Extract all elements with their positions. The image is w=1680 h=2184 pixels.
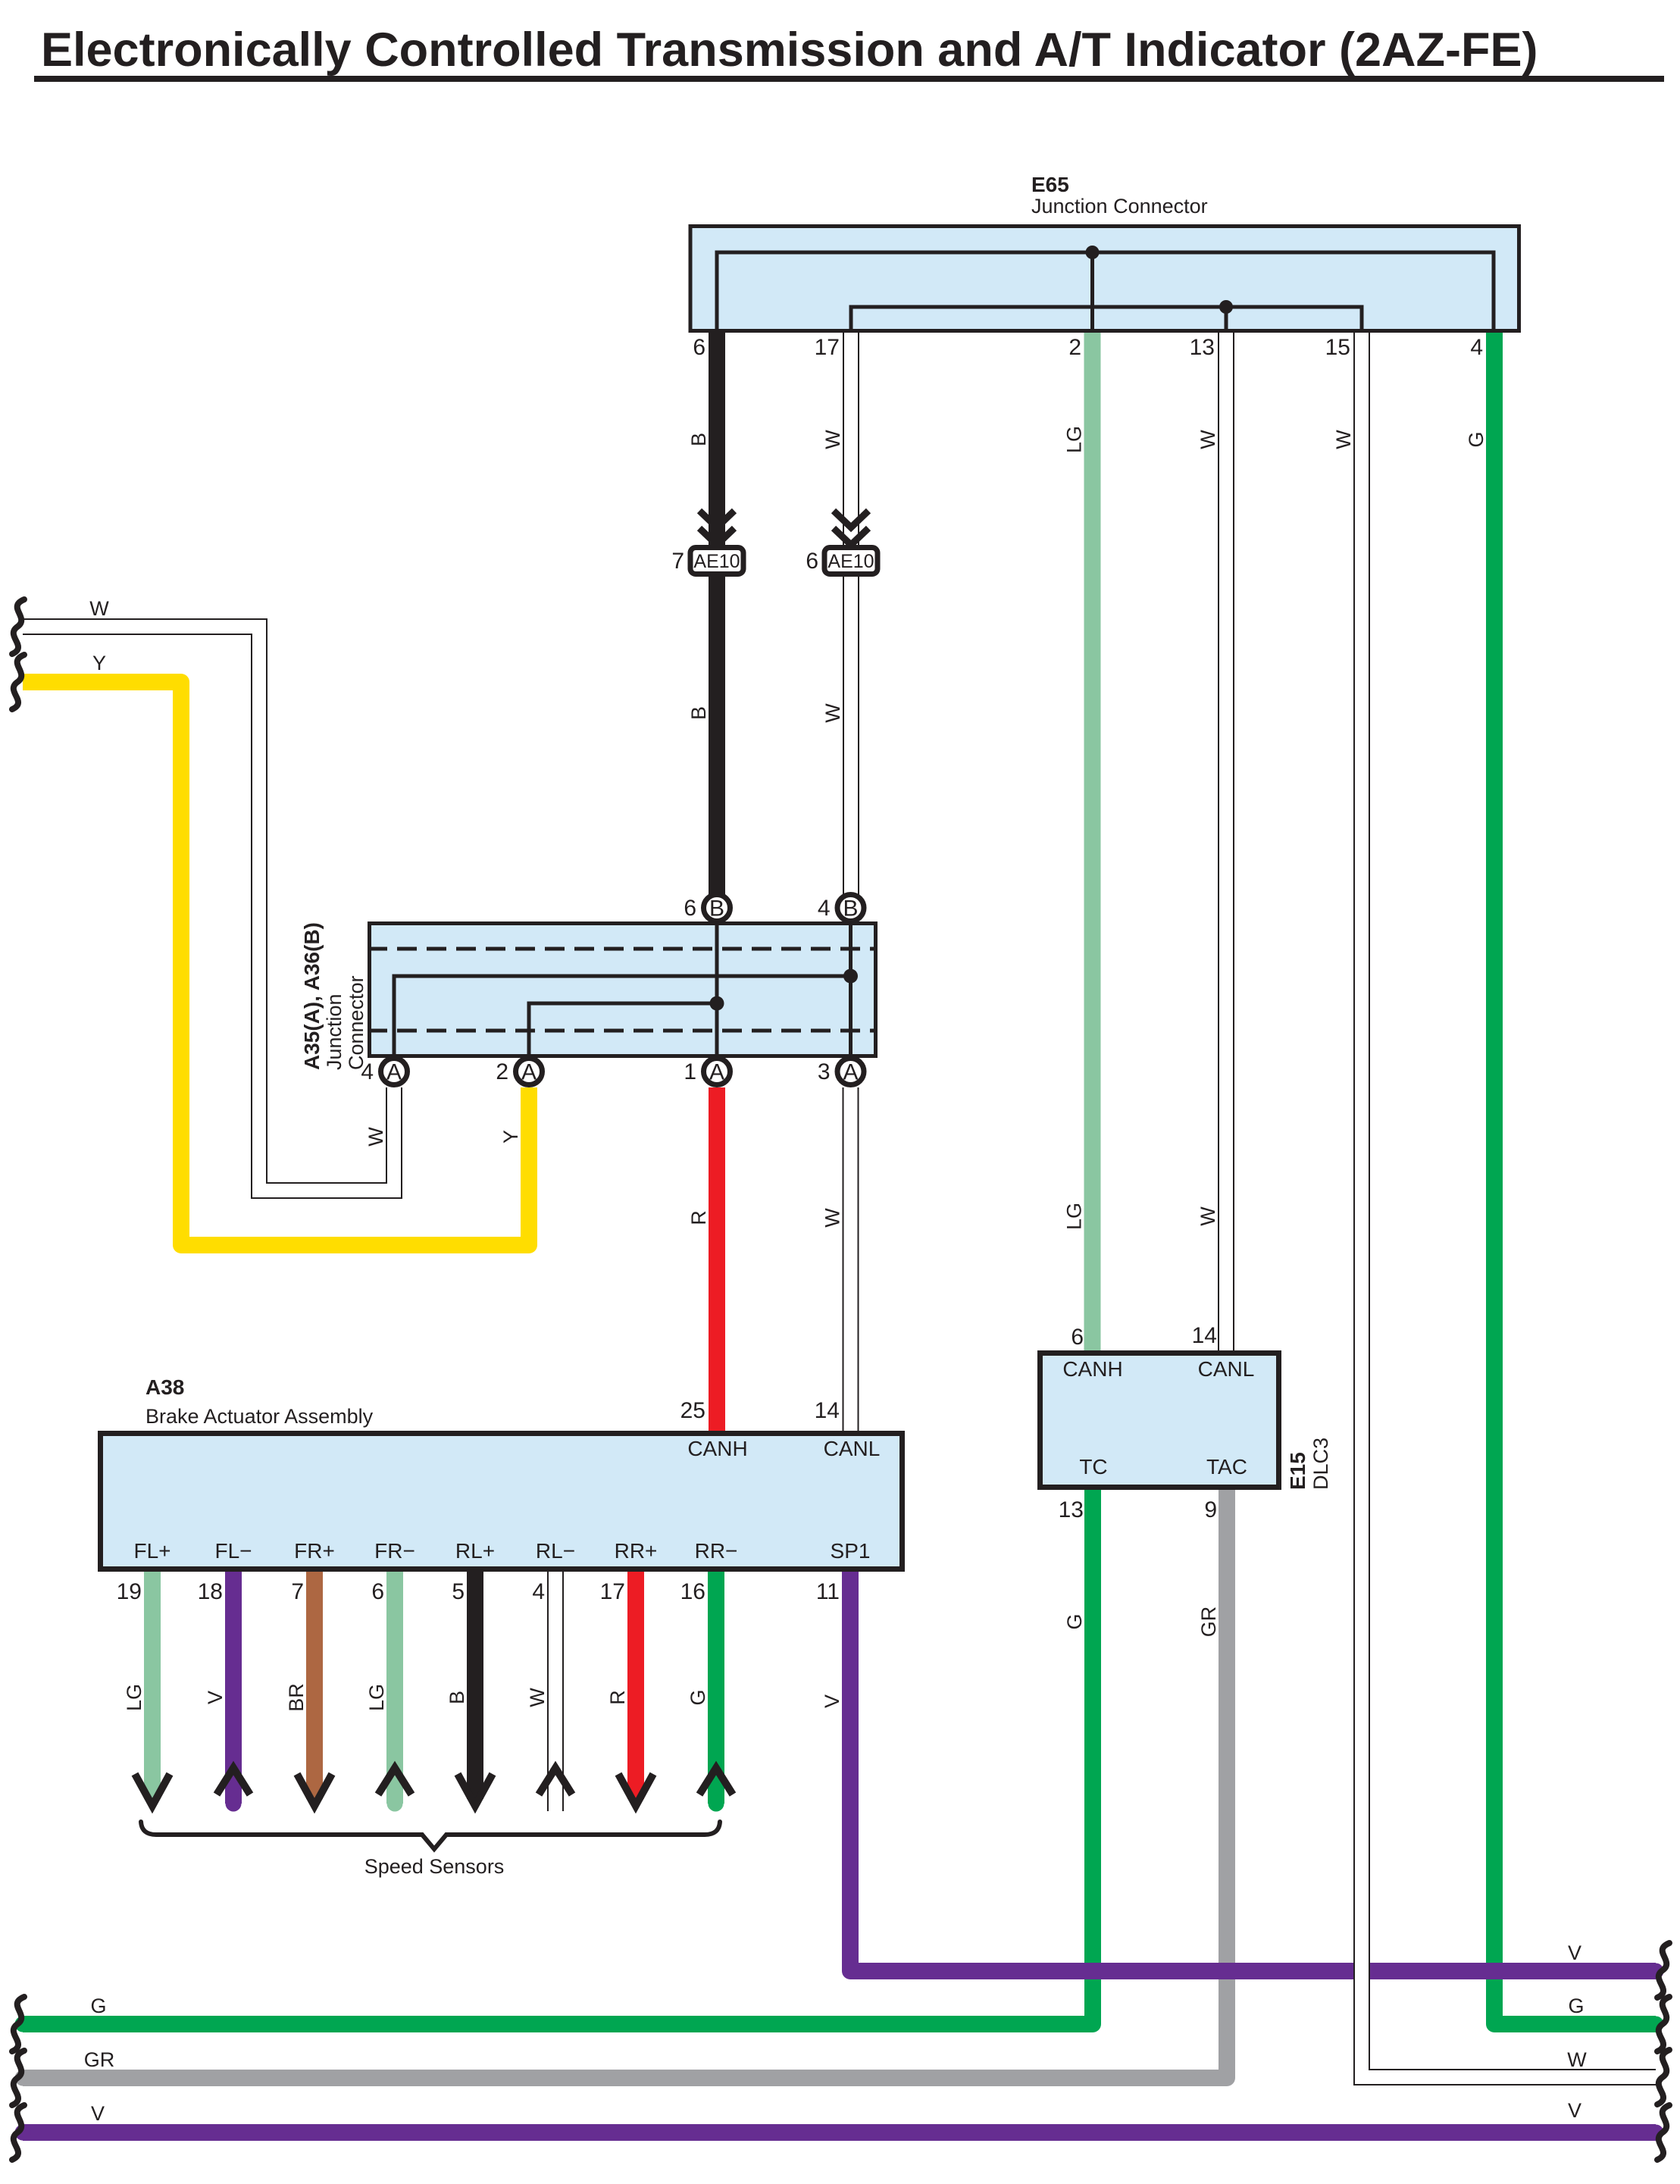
svg-text:W: W [821, 1208, 844, 1228]
svg-text:FR+: FR+ [294, 1539, 335, 1563]
A35 pin 2A [516, 1059, 543, 1085]
wire W from left edge to A35 4A [23, 627, 394, 1191]
svg-text:1: 1 [684, 1059, 696, 1084]
svg-text:6: 6 [371, 1579, 384, 1604]
svg-text:W: W [1197, 430, 1219, 449]
arrow up RR- [699, 1768, 733, 1794]
svg-text:14: 14 [815, 1398, 840, 1423]
junction connector A35(A),A36(B) [370, 924, 876, 1056]
svg-text:CANH: CANH [1062, 1357, 1122, 1381]
svg-text:G: G [687, 1689, 709, 1705]
break symbol G left [12, 1997, 24, 2051]
svg-text:G: G [1063, 1613, 1086, 1629]
svg-text:FL−: FL− [214, 1539, 252, 1563]
break symbol V right [1657, 1943, 1669, 1998]
svg-text:G: G [90, 1995, 106, 2017]
svg-text:AE10: AE10 [827, 551, 874, 572]
svg-text:B: B [687, 706, 710, 720]
arrow down FL+ [135, 1774, 170, 1806]
svg-text:4: 4 [532, 1579, 545, 1604]
A35 internal wire 4A to 4B vertical [394, 976, 851, 1069]
svg-text:V: V [821, 1694, 843, 1708]
svg-text:BR: BR [285, 1683, 308, 1712]
svg-text:W: W [89, 597, 109, 620]
arrow up FL- [217, 1768, 250, 1794]
svg-text:14: 14 [1192, 1323, 1217, 1348]
svg-text:13: 13 [1059, 1497, 1084, 1522]
svg-text:B: B [709, 896, 724, 921]
svg-text:4: 4 [1470, 335, 1483, 360]
svg-text:16: 16 [680, 1579, 705, 1604]
svg-text:2: 2 [1068, 335, 1081, 360]
break symbol G right [1657, 1997, 1669, 2051]
svg-text:LG: LG [123, 1684, 145, 1711]
svg-text:6: 6 [806, 549, 818, 574]
svg-text:Y: Y [499, 1130, 522, 1144]
connector AE10 pin7 (B wire) [699, 511, 734, 527]
svg-text:W: W [364, 1127, 387, 1147]
wire LG A38 FL+ [144, 1572, 161, 1799]
svg-text:6: 6 [1071, 1325, 1084, 1350]
svg-text:RL+: RL+ [455, 1539, 495, 1563]
A35 pin 1A [704, 1059, 731, 1085]
wire B from E65-6 to AE10 [709, 333, 725, 545]
svg-text:G: G [1568, 1995, 1584, 2017]
component E15 DLC3 [1040, 1353, 1279, 1488]
svg-text:6: 6 [684, 896, 696, 921]
svg-text:Junction Connector: Junction Connector [1031, 195, 1208, 217]
wire BR A38 FR+ [306, 1572, 323, 1799]
svg-text:LG: LG [365, 1684, 388, 1711]
svg-text:15: 15 [1325, 335, 1350, 360]
svg-text:AE10: AE10 [693, 551, 740, 572]
wire B from AE10 to A35 6B [709, 577, 725, 895]
svg-text:FL+: FL+ [133, 1539, 171, 1563]
svg-text:CANL: CANL [1198, 1357, 1255, 1381]
svg-text:11: 11 [816, 1579, 840, 1604]
svg-text:V: V [1568, 2099, 1581, 2122]
svg-text:E15: E15 [1286, 1452, 1309, 1490]
svg-text:GR: GR [84, 2048, 115, 2071]
arrow down RL+ [458, 1774, 493, 1806]
wire V A38 FL- [225, 1572, 242, 1804]
wire V bottom bus [23, 2124, 1656, 2141]
svg-text:Speed Sensors: Speed Sensors [364, 1855, 505, 1878]
A35 internal wire 6B-1A [715, 913, 719, 1069]
E65 bus junction dot pin13 [1219, 300, 1233, 314]
wire B A38 RL+ [467, 1572, 483, 1799]
svg-text:17: 17 [815, 335, 840, 360]
wire GR from E15 TAC to left edge GR bus [23, 1490, 1227, 2078]
wire W from E65-13 to E15 CANL [1218, 333, 1234, 1350]
break symbol W left [12, 599, 24, 654]
svg-text:W: W [1567, 2048, 1587, 2071]
svg-text:RR−: RR− [695, 1539, 738, 1563]
wire Y from left edge to A35 2A [23, 682, 529, 1245]
svg-text:DLC3: DLC3 [1309, 1438, 1332, 1490]
wire R from A35 1A to A38 CANH(25) [709, 1087, 725, 1431]
svg-text:TC: TC [1079, 1455, 1107, 1478]
wire W from AE10 to A35 4B [843, 577, 859, 895]
break symbol Y left [12, 655, 24, 709]
break symbol W right [1657, 2050, 1669, 2104]
A35 pin 4A [381, 1059, 408, 1085]
svg-text:B: B [687, 433, 710, 446]
svg-text:3: 3 [818, 1059, 831, 1084]
component A38 Brake Actuator Assembly [101, 1434, 903, 1569]
svg-text:5: 5 [452, 1579, 465, 1604]
break symbol GR left [12, 2051, 24, 2105]
arrow down FR+ [297, 1774, 332, 1806]
svg-text:4: 4 [361, 1059, 374, 1084]
svg-text:R: R [687, 1210, 710, 1225]
wire W from A35 3A to A38 CANL(14) [843, 1087, 859, 1431]
svg-text:B: B [446, 1691, 468, 1704]
wire G A38 RR- [708, 1572, 724, 1804]
svg-text:2: 2 [496, 1059, 508, 1084]
svg-text:6: 6 [693, 335, 705, 360]
arrow up FR- [378, 1768, 411, 1794]
wire G from E65-4 to right edge G bus [1494, 333, 1656, 2024]
svg-text:E65: E65 [1031, 173, 1069, 196]
svg-text:4: 4 [818, 896, 831, 921]
E65 internal bus 6-2-4 [717, 252, 1494, 333]
svg-text:B: B [843, 896, 858, 921]
svg-text:V: V [91, 2102, 105, 2125]
svg-text:CANH: CANH [687, 1437, 747, 1460]
svg-text:A35(A), A36(B): A35(A), A36(B) [300, 922, 324, 1070]
svg-text:Electronically Controlled Tran: Electronically Controlled Transmission a… [41, 23, 1538, 77]
svg-text:Connector: Connector [345, 975, 368, 1070]
svg-text:TAC: TAC [1206, 1455, 1247, 1478]
svg-text:CANL: CANL [824, 1437, 881, 1460]
svg-text:25: 25 [680, 1398, 705, 1423]
arrow up RL- [539, 1768, 572, 1794]
A35 internal wire 2A to 6B vertical [529, 1003, 717, 1069]
svg-text:GR: GR [1197, 1607, 1220, 1638]
svg-text:A38: A38 [145, 1375, 184, 1399]
E65 internal bus 17-13-15 [851, 307, 1362, 333]
E65 bus junction dot pin2 [1086, 246, 1100, 259]
junction connector E65 [690, 227, 1519, 331]
svg-text:Y: Y [92, 652, 106, 674]
A35 pin 6B [704, 895, 731, 921]
wire W A38 RL- [547, 1572, 564, 1811]
svg-text:19: 19 [117, 1579, 142, 1604]
svg-text:W: W [821, 430, 844, 449]
wire R A38 RR+ [627, 1572, 644, 1799]
svg-text:G: G [1465, 431, 1488, 447]
svg-text:A: A [709, 1060, 724, 1085]
svg-text:RL−: RL− [536, 1539, 575, 1563]
arrow down RR+ [618, 1774, 653, 1806]
svg-text:W: W [526, 1688, 549, 1707]
A35 internal wire 4B-3A [849, 913, 853, 1069]
wire W from E65-15 to right edge W bus [1362, 333, 1656, 2077]
svg-text:SP1: SP1 [831, 1539, 871, 1563]
connector AE10 pin6 (W wire) [834, 511, 868, 527]
svg-text:A: A [843, 1060, 858, 1085]
wire G from E15 TC to left edge G bus [23, 1490, 1093, 2024]
svg-text:V: V [1568, 1942, 1581, 1964]
svg-text:W: W [821, 703, 844, 723]
svg-text:Junction: Junction [323, 993, 346, 1070]
svg-text:LG: LG [1063, 426, 1086, 453]
A35 pin 3A [837, 1059, 864, 1085]
svg-text:V: V [204, 1691, 227, 1704]
svg-text:RR+: RR+ [615, 1539, 658, 1563]
wire V from A38 SP1 to right edge V bus [850, 1572, 1656, 1971]
break symbol V left [12, 2105, 24, 2160]
svg-text:A: A [386, 1060, 402, 1085]
wire W from E65-17 to AE10 [843, 333, 859, 545]
svg-text:A: A [521, 1060, 537, 1085]
svg-text:18: 18 [198, 1579, 223, 1604]
svg-text:FR−: FR− [374, 1539, 415, 1563]
svg-text:W: W [1197, 1206, 1219, 1226]
svg-text:7: 7 [291, 1579, 304, 1604]
wire LG A38 FR- [386, 1572, 403, 1804]
wire LG from E65-2 to E15 CANH [1084, 333, 1101, 1350]
svg-text:Brake Actuator Assembly: Brake Actuator Assembly [145, 1405, 374, 1428]
svg-text:7: 7 [671, 549, 684, 574]
svg-text:W: W [1332, 430, 1355, 449]
break symbol V2 right [1657, 2105, 1669, 2160]
svg-text:9: 9 [1204, 1497, 1217, 1522]
svg-text:13: 13 [1190, 335, 1215, 360]
A35 pin 4B [837, 895, 864, 921]
svg-text:17: 17 [600, 1579, 625, 1604]
speed sensors brace [141, 1822, 720, 1849]
svg-text:LG: LG [1063, 1203, 1086, 1230]
svg-text:R: R [606, 1690, 629, 1705]
